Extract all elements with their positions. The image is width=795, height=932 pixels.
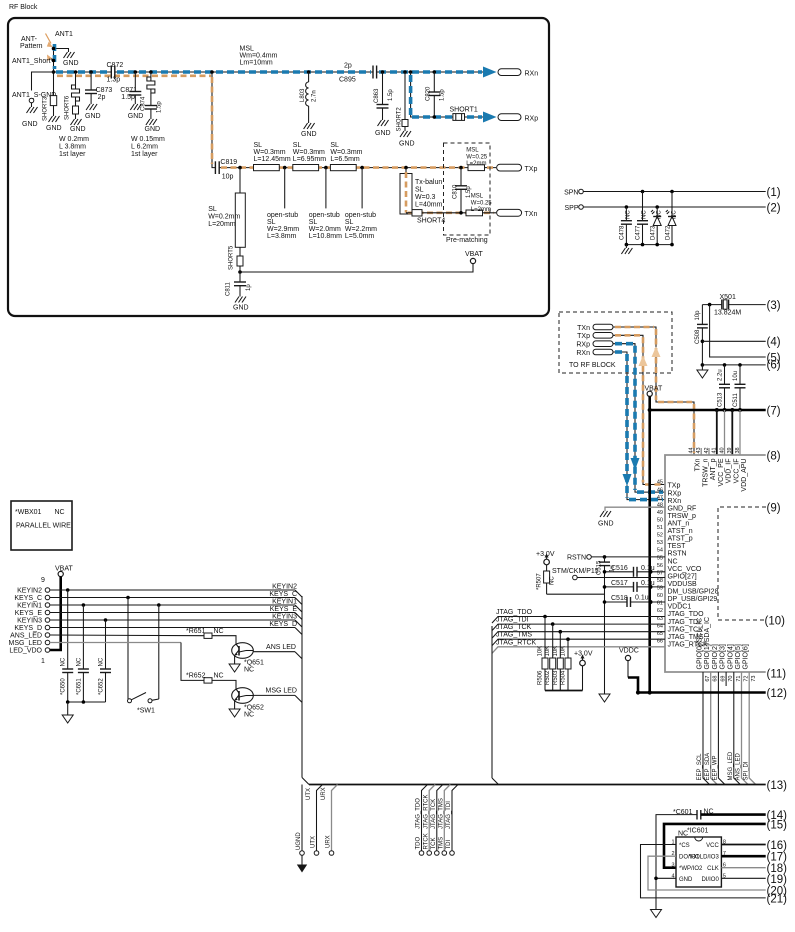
svg-text:1: 1 [41,658,45,665]
svg-text:(2): (2) [767,203,781,215]
svg-text:GND: GND [128,113,144,120]
svg-text:TMS: TMS [438,837,444,850]
pin 8 VCC [706,840,726,850]
wire (15) thick [664,820,787,868]
short SHORT3 [43,96,62,132]
svg-text:L 3.8mm: L 3.8mm [59,144,86,151]
svg-text:52: 52 [657,533,663,539]
svg-text:*C651: *C651 [76,678,82,695]
svg-text:(19): (19) [767,874,788,886]
pre-matching dashed box [444,143,491,244]
svg-text:SHORT4: SHORT4 [417,218,445,225]
svg-text:GND: GND [85,113,101,120]
svg-text:Wm=0.4mm: Wm=0.4mm [240,53,278,60]
resistor R502 10K [545,622,556,690]
svg-text:GND: GND [70,126,86,133]
svg-text:Pattern: Pattern [20,43,43,50]
svg-text:C872: C872 [107,62,124,69]
capacitor C477 NC [636,190,649,245]
diode D472 NC [665,190,677,245]
svg-text:D472: D472 [665,225,671,240]
pad RXn [576,349,613,357]
wire TRSW_n stub [700,448,702,455]
svg-text:GPIO[0]/SCL_IC: GPIO[0]/SCL_IC [697,618,704,670]
svg-text:MSL: MSL [466,148,479,154]
svg-text:ANT_p: ANT_p [710,458,717,480]
RF block border box [8,18,549,316]
wire RXp path black [613,344,665,492]
svg-text:10K: 10K [553,646,559,657]
pin 69 GPIO[2] [712,644,727,681]
svg-text:2.2u: 2.2u [718,369,724,381]
pin 71 GPIO[4] [727,644,742,681]
svg-text:*HOLD/IO3: *HOLD/IO3 [688,855,719,861]
svg-text:ANT1: ANT1 [55,31,73,38]
balun Tx-balun [400,166,443,214]
svg-text:C508: C508 [695,329,701,344]
svg-text:TCK: TCK [431,838,437,850]
svg-text:Pre-matching: Pre-matching [446,237,488,244]
wire GPIO column x=710.7 to bus [711,672,718,785]
svg-text:KEYS_D: KEYS_D [269,621,297,628]
svg-text:TXn: TXn [695,458,702,471]
svg-text:SPI_DI: SPI_DI [743,761,749,780]
open-stub 1 [267,166,299,240]
svg-text:RSTN: RSTN [567,555,586,562]
short SHORT4 [412,210,445,225]
capacitor C515 1u [597,557,616,575]
RF path blue dashed main [56,70,482,74]
wire VDD_APU pin vertical [739,410,741,455]
svg-text:69: 69 [720,676,726,682]
svg-text:W=0.3: W=0.3 [415,194,436,201]
bus bottom line (13) [309,780,787,792]
svg-text:NC: NC [626,210,632,219]
wire MSG_LED row gray [50,643,204,681]
wire MSG LED to bus [253,688,302,703]
capacitor C819 [215,159,237,181]
svg-text:SL: SL [293,142,302,149]
svg-text:L=3.8mm: L=3.8mm [267,233,297,240]
svg-text:10K: 10K [561,646,567,657]
svg-text:C513: C513 [718,392,724,407]
pin 65 JTAG_TMS [657,631,704,641]
wire KEYS_D to bus [50,621,302,635]
wire caps common rail to ground [62,700,105,723]
svg-text:(17): (17) [767,852,788,864]
ground IC601 [651,910,662,918]
capacitor C517 0.1u [603,580,665,592]
connector pin KEYS_C [14,595,49,602]
wire VCC_PE pin vertical [716,410,718,455]
transistor Q651 [229,643,264,674]
microstrip SL 6.5mm [330,142,362,171]
svg-text:TXn: TXn [577,325,590,332]
wire (12) thick [636,688,787,700]
svg-text:KEYS_E: KEYS_E [270,606,298,613]
svg-text:TXn: TXn [525,211,538,218]
pin 52 ATST_p [657,533,693,543]
svg-text:GPIO[3]: GPIO[3] [720,644,727,669]
JTAG_TDI line [492,617,665,631]
wire VDD_IF pin vertical [724,410,726,455]
wire GPIO column x=703 to bus [703,672,710,785]
capacitor C513 [718,365,731,410]
svg-text:(4): (4) [767,337,781,349]
pin 38 VDD_APU [735,447,748,491]
svg-text:(7): (7) [767,406,781,418]
svg-text:JTAG_TMS: JTAG_TMS [438,798,444,829]
svg-text:C810: C810 [453,184,459,199]
svg-text:R503: R503 [553,670,559,685]
RF path blue RXp branch [411,75,482,117]
JTAG_TCK line [492,624,665,638]
svg-text:(11): (11) [767,669,787,681]
TX pattern orange TXn path [615,327,694,453]
svg-text:URX: URX [325,835,331,848]
short SHORT5 [229,245,244,282]
pin 57 GPIO[27] [657,570,697,580]
svg-text:L=5.0mm: L=5.0mm [345,233,375,240]
TXp pad [497,164,538,173]
svg-text:46: 46 [657,487,663,493]
testpoint TDI [446,785,458,856]
capacitor C873 [85,70,112,120]
svg-text:(10): (10) [765,616,786,628]
svg-text:70: 70 [728,676,734,682]
svg-text:SHORT6: SHORT6 [65,95,71,120]
svg-text:NC: NC [642,210,648,219]
TX pattern orange vertical and TXp line [212,77,494,168]
svg-text:*R507: *R507 [537,573,543,590]
svg-text:40: 40 [719,447,725,453]
svg-text:*IC601: *IC601 [687,828,709,835]
svg-text:SHORT2: SHORT2 [397,107,403,132]
svg-text:38: 38 [735,447,741,453]
svg-text:1.5p: 1.5p [121,94,135,101]
svg-text:GND: GND [375,130,391,137]
svg-text:W=2.2mm: W=2.2mm [345,226,377,233]
svg-text:RXp: RXp [576,342,590,349]
svg-text:SPP: SPP [564,205,578,212]
svg-text:*Q652: *Q652 [244,705,264,712]
svg-text:D473: D473 [651,225,657,240]
svg-text:GPIO[6]: GPIO[6] [743,644,750,669]
connector pin KEYS_D [14,625,49,632]
short SHORT6 [65,70,86,133]
svg-text:ATST_n: ATST_n [668,528,693,535]
testpoint RSTN [567,555,665,562]
capacitor C650 NC [61,588,74,702]
ground under ANT1_S-GND [22,103,38,128]
svg-text:L=6.5mm: L=6.5mm [330,156,360,163]
pin 2 DO/IO1 [671,851,700,861]
svg-text:C819: C819 [220,159,237,166]
svg-text:UTX: UTX [310,836,316,848]
svg-text:*WBX01: *WBX01 [15,509,42,516]
wire TXn path black [613,327,694,455]
svg-text:KEYIN1: KEYIN1 [272,599,297,606]
svg-text:49: 49 [657,510,663,516]
svg-text:39: 39 [727,447,733,453]
power VDDC [619,648,639,693]
svg-text:SL: SL [254,142,263,149]
svg-text:STM/CKM/P15: STM/CKM/P15 [552,568,599,575]
svg-text:9: 9 [41,577,45,584]
RXn arrow and pad [483,67,538,78]
arrow blue down on RXp [631,458,640,470]
svg-text:L=2mm: L=2mm [466,161,486,167]
pin 50 ANT_n [657,518,690,528]
pin 46 RXp [657,487,681,497]
svg-text:GND: GND [598,521,614,528]
svg-text:VDD_IF: VDD_IF [726,459,733,484]
svg-text:W 0.2mm: W 0.2mm [59,136,89,143]
svg-text:*WP/IO2: *WP/IO2 [679,866,703,872]
svg-text:GND: GND [63,60,79,67]
svg-text:GND: GND [22,121,38,128]
pad TXn [577,324,613,332]
svg-text:10u: 10u [733,371,739,381]
TO RF BLOCK dashed box [559,312,672,373]
svg-text:L=40mm: L=40mm [415,202,443,209]
svg-text:GPIO[27]: GPIO[27] [668,573,697,580]
wire ANT_p stub [708,448,710,455]
svg-text:SHORT1: SHORT1 [450,107,478,114]
svg-text:TRSW_p: TRSW_p [668,513,697,520]
capacitor C516 0.1u [603,565,665,577]
svg-text:GPIO[4]: GPIO[4] [727,644,734,669]
svg-text:SL: SL [415,187,424,194]
arrow orange up on TXn [652,347,661,358]
connector pin KEYIN3 [17,618,50,625]
capacitor C871 [120,70,143,120]
svg-text:(6): (6) [767,359,781,371]
svg-text:47: 47 [657,495,663,501]
testpoint TMS [438,785,450,856]
svg-text:*C650: *C650 [61,678,67,695]
SPN line (1) [564,187,781,199]
svg-text:L=10.8mm: L=10.8mm [309,233,342,240]
resistor R651 NC [50,628,236,644]
svg-text:KEYS_C: KEYS_C [14,595,42,602]
wire TXp path black [613,335,665,484]
svg-text:MSG_LED: MSG_LED [728,751,734,780]
RF path blue vertical at ANT [53,44,57,69]
svg-text:KEYS_E: KEYS_E [15,610,43,617]
TX pattern orange balun vertical and TXn line [406,172,494,213]
wire (16) VCC [721,840,787,852]
pin 7 *HOLD/IO3 [688,851,726,861]
wire GPIO column x=733.8 to bus [734,672,741,785]
pad TXp [577,333,613,341]
svg-text:DM_USB/GPI28: DM_USB/GPI28 [668,589,719,596]
svg-text:C517: C517 [611,580,628,587]
svg-text:KEYIN1: KEYIN1 [17,603,42,610]
pin 63 JTAG_TDI [657,616,700,626]
svg-text:UGND: UGND [296,832,302,850]
power VBAT connector [41,566,73,585]
pin 73 GPIO[6] [743,644,758,681]
pin 62 JTAG_TDO [657,608,704,618]
svg-text:NC: NC [98,657,104,666]
ground hatch SPN cluster [621,245,632,254]
svg-text:EEP_WP: EEP_WP [713,755,719,780]
svg-text:W=0.3mm: W=0.3mm [293,149,325,156]
svg-text:CLK: CLK [707,866,719,872]
capacitor C872 [107,62,124,84]
inductor-cap C874 [141,70,163,133]
svg-text:SHORT3: SHORT3 [43,96,49,121]
svg-text:(3): (3) [767,300,781,312]
svg-text:62: 62 [657,608,663,614]
dashed nets (9)-(10) [718,503,785,628]
svg-text:VCC_IF: VCC_IF [734,459,741,484]
svg-text:TXp: TXp [668,483,681,490]
svg-text:SL: SL [309,219,318,226]
svg-text:MSG_LED: MSG_LED [9,640,42,647]
svg-text:KEYIN2: KEYIN2 [272,584,297,591]
short SHORT2 [397,70,415,147]
JTAG_TDO line [492,609,665,623]
wire to ANT1_S-GND [32,72,54,91]
wire TX chain black [210,70,496,167]
svg-text:PARALLEL WIRE: PARALLEL WIRE [16,523,71,530]
svg-text:open-stub: open-stub [345,212,376,219]
svg-text:10K: 10K [538,646,544,657]
wire KEYIN2 to bus [50,584,302,598]
svg-text:open-stub: open-stub [309,212,340,219]
capacitor C508 [695,305,708,367]
svg-text:KEYIN3: KEYIN3 [17,618,42,625]
svg-text:GND: GND [399,141,415,148]
svg-text:ANT_n: ANT_n [668,521,690,528]
svg-text:URX: URX [321,787,327,800]
svg-text:Tx-balun: Tx-balun [415,179,442,186]
connector pin KEYS_E [15,610,50,617]
testpoint RTCK [423,785,435,856]
svg-text:SL: SL [267,219,276,226]
inductor L803 [300,70,318,138]
pin 67 GPIO[0]/SCL_IC [697,618,712,682]
svg-text:TRSW_n: TRSW_n [702,458,709,487]
wire (18) CLK gray [721,863,787,875]
svg-text:(21): (21) [767,893,788,905]
svg-text:C516: C516 [611,565,628,572]
svg-text:NC: NC [214,673,224,680]
RXp arrow and pad [483,112,538,123]
microstrip SL 12.45mm [254,142,291,171]
svg-text:JTAG_TCK: JTAG_TCK [431,799,437,829]
svg-text:JTAG_TDI: JTAG_TDI [446,801,452,829]
pin 59 DM_USB/GPI28 [657,586,719,596]
capacitor C863 [374,70,394,137]
svg-text:NC: NC [55,509,65,516]
pin 42 ANT_p [704,447,717,480]
svg-text:RXp: RXp [668,490,682,497]
capacitor C651 NC [76,603,89,702]
svg-text:VCC: VCC [706,843,719,849]
testpoint UTX [306,785,323,856]
svg-text:GPIO[1]/SDA_IC: GPIO[1]/SDA_IC [704,617,711,670]
svg-text:RSTN: RSTN [668,551,687,558]
svg-text:TO RF BLOCK: TO RF BLOCK [569,362,616,369]
pin 60 DP_USB/GPI29 [657,593,718,603]
capacitor C511 [733,365,746,410]
svg-text:DP_USB/GPI29: DP_USB/GPI29 [668,596,718,603]
pin 3 *WP/IO2 [671,863,703,873]
testpoint URX [321,785,338,856]
op IC U501 outline [665,451,786,681]
svg-text:W=2.0mm: W=2.0mm [309,226,341,233]
svg-text:44: 44 [688,447,694,453]
label W 0.2mm block [59,136,89,158]
TXn pad [497,209,538,218]
wire VBAT thick vertical [648,396,651,692]
short SHORT1 [450,107,478,121]
switch SW1 [126,596,160,715]
svg-text:C518: C518 [611,595,628,602]
diode D473 NC [651,205,663,244]
svg-text:MSL: MSL [471,194,484,200]
svg-text:JTAG_TDO: JTAG_TDO [496,609,533,616]
RX pattern blue RXn path [615,352,663,500]
ground GND rail triangle [599,694,610,702]
svg-text:C863: C863 [374,88,380,103]
svg-text:NC: NC [214,628,224,635]
pin 6 CLK [707,863,726,873]
capacitor C601 NC [656,809,714,910]
JTAG_RTCK line [492,639,665,653]
svg-text:GND: GND [46,125,62,132]
wire (14) thick [701,810,787,822]
resistor R503 10K [553,630,564,691]
connector pin LED_VDO [9,648,49,655]
svg-text:SPN: SPN [564,190,578,197]
svg-text:KEYS_C: KEYS_C [269,591,297,598]
pin 70 GPIO[3] [720,644,735,681]
wire GND rail vertical [604,566,606,694]
wire KEYS_E to bus [50,606,302,620]
capacitor C820 [426,70,446,119]
svg-text:ANT1_S-GND: ANT1_S-GND [12,92,56,99]
wire (17) HOLD thick [721,852,787,864]
svg-text:53: 53 [657,540,663,546]
svg-text:1.5p: 1.5p [157,101,163,113]
pin 64 JTAG_TCK [657,623,703,633]
JTAG_TMS line [492,632,665,646]
svg-text:VBAT: VBAT [55,566,73,573]
pin 41 VCC_PE [712,447,725,486]
svg-text:(16): (16) [767,840,788,852]
svg-text:JTAG_RTCK: JTAG_RTCK [423,795,429,829]
svg-text:GPIO[5]: GPIO[5] [735,644,742,669]
pin 55 NC [657,555,678,565]
open-stub 3 [345,166,377,240]
node A junction dots ANT [52,47,56,51]
power VBAT in RF block [238,251,483,274]
svg-text:EEP_SDA: EEP_SDA [705,753,711,781]
microstrip SL 6.95mm [293,142,326,171]
svg-text:JTAG_TMS: JTAG_TMS [496,632,532,639]
wire TXn line black [406,212,496,214]
svg-text:R504: R504 [561,670,567,685]
svg-text:SL: SL [208,206,217,213]
svg-text:ANT-: ANT- [21,36,38,43]
svg-text:NC: NC [61,657,67,666]
svg-text:51: 51 [657,525,663,531]
testpoint ANT1_S-GND [29,98,34,103]
